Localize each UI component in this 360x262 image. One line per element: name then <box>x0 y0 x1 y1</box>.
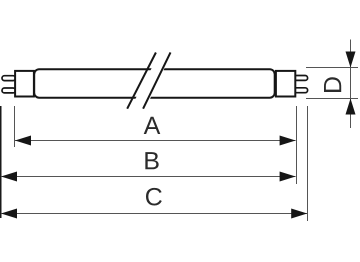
extension line left pin-tip <box>0 106 2 218</box>
arrowhead D top <box>346 52 356 68</box>
arrowhead C right <box>291 209 307 219</box>
extension line right cap-face <box>296 106 298 184</box>
pin right lower <box>294 88 308 93</box>
arrowhead A left <box>15 136 31 146</box>
break mark slash 2 <box>143 52 170 108</box>
end cap left <box>15 71 34 97</box>
glass tube body <box>34 69 275 98</box>
arrowhead C left <box>1 209 17 219</box>
extension line left cap-face <box>14 106 16 147</box>
pin left lower <box>2 88 16 93</box>
dimension line C <box>1 213 307 215</box>
arrowhead B left <box>1 172 17 182</box>
break gap white-out <box>134 67 165 102</box>
arrowhead D bottom <box>346 99 356 115</box>
label C <box>146 188 162 206</box>
pin left upper <box>2 76 16 81</box>
label D <box>324 77 341 92</box>
dimension line A <box>15 140 296 142</box>
dimension line D vertical <box>350 40 352 129</box>
arrowhead A right <box>280 136 296 146</box>
label A <box>144 117 161 134</box>
end cap right <box>276 71 295 97</box>
break mark slash 1 <box>127 53 156 109</box>
dimension line B <box>1 176 296 178</box>
extension line right pin-tip <box>307 106 309 221</box>
extension line D bottom <box>306 98 358 100</box>
extension line D top <box>306 67 358 69</box>
label B <box>145 152 158 169</box>
arrowhead B right <box>280 172 296 182</box>
pin right upper <box>294 76 308 81</box>
